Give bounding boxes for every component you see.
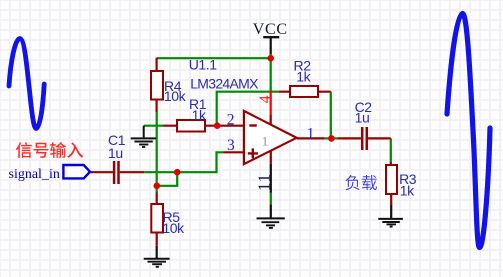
resistor R1 (177, 120, 205, 132)
svg-text:1: 1 (262, 133, 269, 148)
capacitor C2 (362, 127, 367, 150)
resistor R3 leads (390, 162, 393, 205)
junction divider node (154, 183, 161, 190)
svg-text:11: 11 (255, 173, 274, 191)
wire signal to pin 3 (144, 152, 223, 172)
resistor R5 leads (156, 193, 158, 246)
label 负载 (345, 175, 377, 190)
wire C2 to R3 (390, 138, 392, 162)
capacitor C1 leads (90, 171, 144, 173)
pin 11 lead (270, 151, 272, 164)
svg-text:10k: 10k (162, 220, 185, 236)
svg-text:1u: 1u (355, 109, 370, 125)
wire divider to R5 (156, 186, 158, 193)
svg-text:signal_in: signal_in (9, 167, 60, 182)
svg-text:2: 2 (227, 111, 235, 128)
svg-text:1k: 1k (192, 107, 207, 123)
svg-text:1k: 1k (296, 68, 311, 84)
capacitor C1 (114, 161, 118, 184)
svg-text:3: 3 (227, 137, 235, 154)
wire jog to divider midpoint (157, 172, 177, 186)
junction VCC node (267, 55, 274, 62)
input waveform (9, 39, 44, 129)
resistor R1 leads (163, 125, 244, 127)
svg-text:4: 4 (257, 95, 274, 103)
wire feedback from pin 2 to R2 (217, 92, 279, 126)
ground under op-amp (257, 204, 285, 228)
wire R2 right to output (330, 92, 332, 139)
svg-text:1u: 1u (108, 145, 123, 161)
output waveform (447, 14, 490, 248)
resistor R5 (151, 204, 163, 233)
svg-text:10k: 10k (164, 88, 187, 104)
junction signal node (174, 169, 181, 176)
wire R4 to R5 divider (156, 112, 158, 186)
wire output node (325, 137, 338, 139)
resistor R2 leads (279, 91, 331, 93)
label 信号输入 (16, 142, 83, 158)
wire VCC top to R4 (157, 57, 271, 59)
pin 3 lead (224, 151, 244, 153)
svg-text:1k: 1k (400, 183, 415, 199)
wire ground to R1 (144, 125, 164, 127)
wire VCC down to pin 4 (270, 57, 272, 90)
junction output node (328, 135, 335, 142)
junction pin 2 node (214, 122, 221, 129)
port signal_in (9, 165, 91, 182)
capacitor C2 leads (338, 137, 391, 139)
pin 4 lead red (270, 90, 272, 115)
op-amp output lead (297, 137, 325, 139)
svg-text:U1.1: U1.1 (189, 56, 218, 72)
svg-text:1: 1 (307, 126, 315, 143)
power VCC (253, 21, 288, 58)
svg-text:VCC: VCC (253, 21, 288, 38)
ground under R3 (378, 219, 403, 227)
svg-text:LM324AMX: LM324AMX (190, 75, 259, 91)
ground under R5 (144, 259, 170, 267)
op-amp U1 (244, 111, 297, 164)
resistor R4 leads (156, 58, 158, 112)
ground near R1 (131, 126, 156, 147)
wire pin 11 to ground (270, 193, 272, 204)
resistor R3 (386, 165, 397, 194)
resistor R4 (151, 71, 163, 100)
resistor R2 (290, 86, 318, 97)
